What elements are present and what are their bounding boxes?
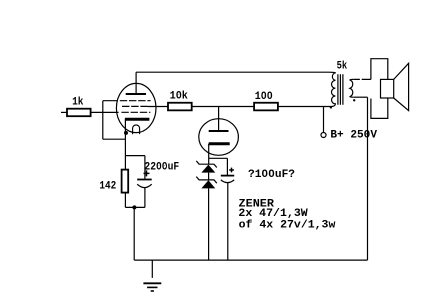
ground stem [151,260,153,278]
tube V1 cathode bar [125,118,149,121]
resistor 10k [168,103,192,111]
B+ terminal circle [321,133,326,138]
svg-text:?100uF?: ?100uF? [248,169,295,181]
speaker LS1 horn [394,63,409,110]
svg-text:B+ 250V: B+ 250V [330,130,377,142]
tube V1 grid g1 dashes [121,111,150,113]
tube V2 envelope [199,119,239,156]
tube V2 plate [209,130,229,132]
svg-text:1k: 1k [72,97,84,109]
wire g2 to 10k [148,106,169,108]
wire junction riser to rail [133,207,135,260]
transformer T1 secondary winding [350,79,354,97]
zener D2 bar [196,177,217,184]
tube V1 envelope [116,83,156,132]
transformer phase dot primary [330,106,332,108]
capacitor ?100uF? lead [227,182,229,260]
wire g3 tie vertical [103,101,126,140]
svg-text:10k: 10k [170,91,189,103]
tube V1 grid g3 dashes [120,100,151,102]
resistor 100 [254,103,278,111]
svg-text:100: 100 [255,91,273,103]
tube V1 cathode lead [124,119,126,155]
wire cathode jog to 100uF [209,158,228,175]
zener D1 triangle [201,165,215,173]
wire 1k to grid g1 [91,111,119,113]
wire secondary bottom to speaker [354,96,368,98]
wire 142 bottom [125,193,144,208]
wire B+ drop [323,107,325,133]
zener D2 triangle [201,180,215,188]
wire between zeners [208,173,210,180]
capacitor 2200uF plate [137,179,152,181]
tube V2 cathode lead [208,144,210,165]
transformer T1 core [338,74,343,104]
capacitor 2200uF curved plate [137,184,152,187]
junction dot 142/2200uF [132,205,136,209]
wire tube V2 plate drop [218,107,220,132]
tube V1 heater [133,125,140,134]
tube V1 plate [135,72,137,94]
svg-text:of 4x 27v/1,3w: of 4x 27v/1,3w [239,219,336,231]
speaker LS1 magnet box [381,79,394,98]
speaker LS1 frame [371,59,388,119]
transformer T1 primary winding [329,72,335,106]
plus sign ?100uF? [229,168,234,173]
transformer phase dot secondary [353,99,355,101]
svg-text:5k: 5k [337,60,348,72]
wire 10k to 100 [192,106,254,108]
wire 100 to transformer primary bottom [278,106,331,108]
capacitor 2200uF lead [144,187,146,207]
ground rail [134,259,367,261]
input wire to 1k [61,111,67,113]
svg-text:142: 142 [99,181,116,193]
plus sign 2200uF [144,170,150,176]
capacitor ?100uF? plate [221,175,234,177]
wire secondary top to speaker [354,78,371,80]
junction dot cathode/envelope [124,131,128,135]
tube V2 cathode bar [209,142,230,145]
capacitor ?100uF? curved plate [221,180,234,183]
wire cathode tee to 2200uF [125,156,144,180]
tube V1 grid g2 dashes [122,105,148,107]
wire zener string to rail [208,188,210,260]
wire cathode tee down to 142 [124,156,126,170]
svg-text:2200uF: 2200uF [144,162,179,174]
resistor 1k [67,109,91,117]
ground bar 1 [143,282,161,284]
wire plate to transformer primary top [136,71,329,73]
ground bar 2 [147,286,157,288]
zener D1 bar [196,161,217,168]
zero-dot masks (font cleanup) [158,94,272,174]
resistor 142 [122,170,129,193]
ground bar 3 [151,290,154,292]
wire speaker return to ground rail [367,97,369,260]
